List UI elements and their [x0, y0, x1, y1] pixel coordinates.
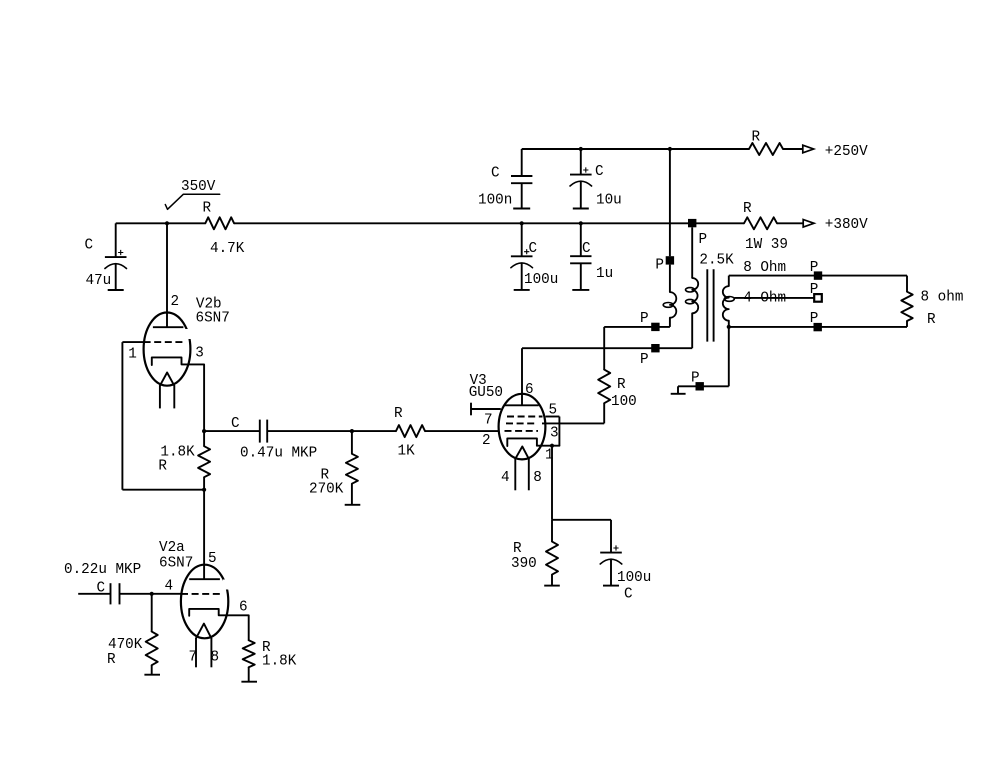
- svg-text:C: C: [582, 241, 591, 257]
- svg-text:R: R: [203, 201, 212, 217]
- ground: [677, 386, 679, 394]
- wire coupling: [204, 430, 260, 432]
- wire +380V rail: [116, 222, 206, 224]
- wire V2b cathode down: [203, 364, 205, 431]
- svg-text:+250V: +250V: [825, 144, 868, 160]
- wire after cap: [267, 430, 396, 432]
- node V2b out: [202, 429, 206, 433]
- V2b cathode: [152, 357, 204, 365]
- terminal P (B+ centre): [688, 219, 696, 227]
- wire V2a grid left: [120, 593, 182, 595]
- svg-text:C: C: [231, 416, 240, 432]
- terminal P (ground): [696, 382, 704, 390]
- wire +250V rail: [522, 148, 749, 150]
- svg-text:4 Ohm: 4 Ohm: [743, 291, 786, 307]
- inductor primary winding 2: [692, 278, 698, 313]
- wire V2b grid to feedback: [122, 341, 143, 343]
- terminal P (primary top): [666, 256, 674, 264]
- tube V2b envelope: [144, 313, 191, 386]
- V3 g3 tie bracket: [546, 416, 560, 418]
- svg-text:C: C: [624, 587, 633, 603]
- wire V3 plate lead: [521, 348, 523, 405]
- svg-text:1.8K: 1.8K: [262, 654, 297, 670]
- V2b plate: [153, 326, 184, 328]
- svg-text:350V: 350V: [181, 179, 216, 195]
- terminal P (UL tap): [651, 323, 659, 331]
- svg-text:470K: 470K: [108, 637, 143, 653]
- terminal P (8 ohm): [814, 271, 822, 279]
- svg-text:0.47u MKP: 0.47u MKP: [240, 446, 317, 462]
- capacitor C 0.47u MKP: [259, 420, 261, 443]
- svg-text:P: P: [810, 311, 819, 327]
- wire 4 Ohm tap: [734, 297, 814, 299]
- svg-text:2: 2: [171, 294, 180, 310]
- resistor R 270K: [351, 431, 353, 454]
- capacitor C 0.22u MKP: [110, 583, 112, 604]
- svg-text:6: 6: [239, 600, 248, 616]
- resistor R 1.8K (V2b cathode): [203, 431, 205, 446]
- V2a heater: [196, 624, 211, 639]
- svg-text:4: 4: [165, 579, 174, 595]
- svg-text:8 ohm: 8 ohm: [921, 290, 964, 306]
- resistor R 470K: [151, 594, 153, 632]
- svg-text:4: 4: [501, 470, 510, 486]
- svg-text:P: P: [691, 371, 700, 387]
- wire input: [78, 593, 110, 595]
- svg-text:270K: 270K: [309, 482, 344, 498]
- svg-text:V2a: V2a: [159, 540, 185, 556]
- svg-text:100u: 100u: [617, 570, 651, 586]
- svg-text:R: R: [158, 459, 167, 475]
- svg-text:1W 39: 1W 39: [745, 237, 788, 253]
- svg-text:100n: 100n: [478, 193, 512, 209]
- svg-text:3: 3: [550, 426, 559, 442]
- svg-text:1u: 1u: [596, 266, 613, 282]
- svg-text:GU50: GU50: [469, 385, 503, 401]
- V3 plate: [504, 404, 539, 406]
- tube V2a envelope: [181, 565, 228, 639]
- resistor R 1K: [396, 425, 425, 437]
- V3 heater: [515, 447, 529, 459]
- resistor R (to +250V): [749, 143, 783, 155]
- capacitor C 47u: [115, 223, 117, 257]
- arrow +380V: [803, 220, 814, 228]
- svg-text:P: P: [810, 260, 819, 276]
- 350V leader note: [165, 194, 219, 209]
- V3 g2 (dashed): [506, 422, 537, 424]
- svg-text:7: 7: [484, 413, 493, 429]
- inductor secondary winding: [728, 276, 730, 287]
- V3 pin7 stub: [471, 408, 501, 410]
- node 250V/primary: [668, 147, 672, 151]
- node V3 cathode: [550, 444, 554, 448]
- svg-text:2.5K: 2.5K: [699, 253, 734, 269]
- svg-text:100u: 100u: [524, 272, 558, 288]
- V2a cathode: [189, 609, 249, 616]
- svg-text:R: R: [617, 377, 626, 393]
- V2a grid (dashed): [181, 593, 222, 595]
- V2b heater: [160, 373, 174, 386]
- svg-text:4.7K: 4.7K: [210, 241, 245, 257]
- node secondary common: [727, 325, 731, 329]
- resistor R 1.8K (V2a cathode): [248, 615, 250, 640]
- svg-text:R: R: [752, 130, 761, 146]
- svg-text:5: 5: [549, 403, 558, 419]
- wire secondary top (8 Ohm): [729, 275, 907, 277]
- svg-text:1: 1: [128, 347, 137, 363]
- svg-text:100: 100: [611, 394, 637, 410]
- wire V3 g2 to R100: [542, 422, 604, 424]
- svg-text:0.22u MKP: 0.22u MKP: [64, 562, 141, 578]
- svg-text:C: C: [85, 238, 94, 254]
- wire primary1 drop: [669, 149, 671, 256]
- tube V3 envelope: [499, 394, 546, 460]
- V2b grid (dashed): [144, 341, 184, 343]
- svg-text:R: R: [927, 312, 936, 328]
- arrow +250V: [803, 145, 814, 153]
- svg-text:7: 7: [189, 650, 198, 666]
- resistor R 8 ohm load: [906, 276, 908, 292]
- V3 g3 (dashed): [507, 416, 543, 418]
- svg-text:1K: 1K: [398, 444, 416, 460]
- transformer core: [706, 269, 708, 341]
- svg-text:P: P: [699, 232, 708, 248]
- wire plate link: [522, 347, 692, 349]
- node V2a grid: [150, 592, 154, 596]
- svg-text:6: 6: [525, 382, 534, 398]
- svg-text:C: C: [491, 166, 500, 182]
- terminal P (4 ohm, open): [814, 294, 822, 302]
- svg-text:P: P: [640, 311, 649, 327]
- svg-text:6SN7: 6SN7: [196, 311, 230, 327]
- svg-text:8: 8: [533, 470, 542, 486]
- node 350V: [165, 221, 169, 225]
- svg-text:10u: 10u: [596, 193, 622, 209]
- wire cathode branch: [552, 519, 611, 521]
- capacitor C 10u: [580, 149, 582, 175]
- node 250V/10u: [579, 147, 583, 151]
- svg-text:C: C: [595, 164, 604, 180]
- V3 cathode: [507, 438, 559, 446]
- node rail/100u: [520, 221, 524, 225]
- svg-text:5: 5: [208, 551, 217, 567]
- node grid V3: [350, 429, 354, 433]
- svg-text:390: 390: [511, 556, 537, 572]
- resistor R 4.7K (rail dropper): [205, 217, 234, 229]
- svg-text:R: R: [394, 406, 403, 422]
- wire V2b plate lead: [166, 223, 168, 327]
- wire UL tap link: [604, 326, 670, 328]
- capacitor C 100n: [521, 149, 523, 176]
- capacitor C 1u: [580, 223, 582, 256]
- wire feedback left: [121, 342, 123, 490]
- svg-text:6SN7: 6SN7: [159, 555, 193, 571]
- wire R1K to V3 grid: [425, 430, 499, 432]
- capacitor C 100u (V3 cathode): [610, 520, 612, 553]
- V2a plate: [189, 578, 220, 580]
- V3 g1 (dashed): [505, 430, 539, 432]
- svg-text:+380V: +380V: [825, 217, 868, 233]
- svg-text:C: C: [529, 241, 538, 257]
- wire primary2 drop: [691, 227, 693, 278]
- terminal P (plate): [651, 344, 659, 352]
- svg-text:8 Ohm: 8 Ohm: [743, 260, 786, 276]
- wire to V2a plate: [203, 490, 205, 580]
- svg-text:3: 3: [195, 346, 204, 362]
- resistor R 100: [603, 403, 605, 423]
- svg-text:R: R: [107, 652, 116, 668]
- node rail/1u: [579, 221, 583, 225]
- svg-text:P: P: [640, 352, 649, 368]
- svg-text:8: 8: [211, 650, 220, 666]
- wire V3 cathode down: [551, 446, 553, 520]
- resistor R 1W 39 (to +380V): [744, 217, 777, 229]
- svg-text:2: 2: [482, 433, 491, 449]
- svg-text:P: P: [655, 258, 664, 274]
- svg-text:R: R: [743, 201, 752, 217]
- resistor R 390: [551, 520, 553, 542]
- terminal P (common): [814, 323, 822, 331]
- svg-text:R: R: [513, 541, 522, 557]
- capacitor C 100u (rail): [521, 223, 523, 256]
- node SRPP mid: [202, 488, 206, 492]
- svg-text:47u: 47u: [86, 273, 112, 289]
- wire secondary common down: [728, 327, 730, 386]
- inductor primary winding 1: [670, 292, 676, 318]
